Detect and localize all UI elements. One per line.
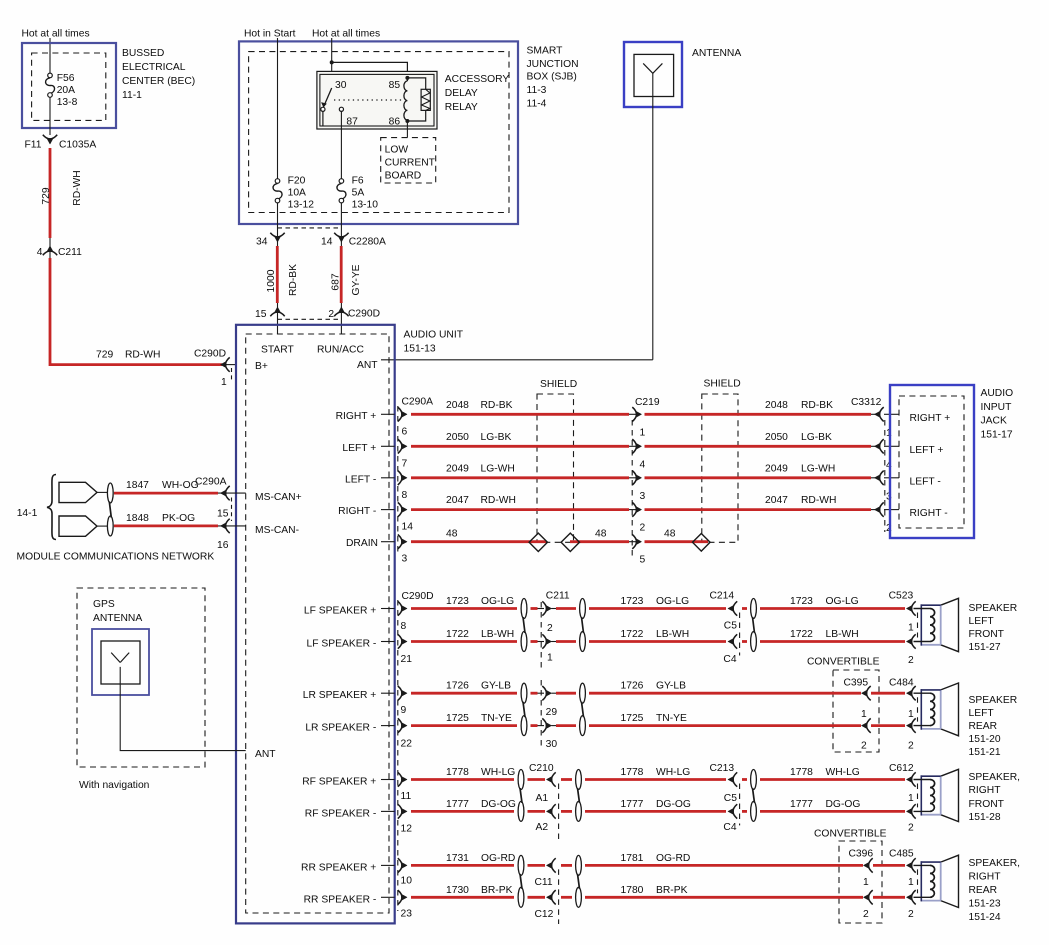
svg-text:LR SPEAKER +: LR SPEAKER + <box>303 690 377 701</box>
svg-text:2048: 2048 <box>446 400 469 411</box>
svg-text:C290A: C290A <box>402 396 434 407</box>
svg-text:30: 30 <box>335 80 347 91</box>
svg-text:15: 15 <box>255 309 267 320</box>
svg-text:LG-BK: LG-BK <box>481 432 512 443</box>
svg-text:1722: 1722 <box>790 629 813 640</box>
svg-text:2047: 2047 <box>446 495 469 506</box>
svg-text:151-23: 151-23 <box>969 899 1001 910</box>
svg-text:LEFT +: LEFT + <box>342 443 376 454</box>
svg-text:REAR: REAR <box>969 885 998 896</box>
svg-text:2: 2 <box>861 741 867 752</box>
svg-text:C211: C211 <box>58 247 82 258</box>
svg-text:C211: C211 <box>546 591 570 602</box>
svg-text:2: 2 <box>547 623 553 634</box>
svg-text:START: START <box>261 345 295 356</box>
svg-text:ANTENNA: ANTENNA <box>93 613 142 624</box>
svg-text:2: 2 <box>863 909 869 920</box>
svg-text:LOW: LOW <box>385 145 409 156</box>
svg-text:SPEAKER,: SPEAKER, <box>969 858 1021 869</box>
svg-text:1726: 1726 <box>621 681 644 692</box>
svg-text:TN-YE: TN-YE <box>481 713 512 724</box>
svg-text:WH-OG: WH-OG <box>162 480 199 491</box>
svg-text:151-24: 151-24 <box>969 912 1001 923</box>
svg-text:CONVERTIBLE: CONVERTIBLE <box>814 829 887 840</box>
svg-text:2: 2 <box>908 909 914 920</box>
svg-text:BR-PK: BR-PK <box>656 885 688 896</box>
svg-text:1848: 1848 <box>126 513 149 524</box>
svg-text:1: 1 <box>547 653 553 664</box>
svg-text:1: 1 <box>908 793 914 804</box>
svg-text:1722: 1722 <box>621 629 644 640</box>
svg-text:C523: C523 <box>889 591 914 602</box>
svg-text:JACK: JACK <box>981 416 1007 427</box>
svg-text:GPS: GPS <box>93 599 115 610</box>
svg-text:C290D: C290D <box>194 349 226 360</box>
svg-text:FRONT: FRONT <box>969 799 1005 810</box>
svg-text:F6: F6 <box>352 176 364 187</box>
svg-text:1777: 1777 <box>790 799 813 810</box>
svg-text:DRAIN: DRAIN <box>346 538 378 549</box>
svg-text:10: 10 <box>401 876 413 887</box>
svg-text:1: 1 <box>908 623 914 634</box>
svg-text:C5: C5 <box>724 621 737 632</box>
svg-text:1723: 1723 <box>446 596 469 607</box>
svg-text:LF SPEAKER +: LF SPEAKER + <box>304 606 376 617</box>
svg-text:7: 7 <box>402 458 408 469</box>
svg-text:C612: C612 <box>889 763 914 774</box>
svg-text:RUN/ACC: RUN/ACC <box>317 345 364 356</box>
svg-text:SPEAKER,: SPEAKER, <box>969 772 1021 783</box>
svg-text:DG-OG: DG-OG <box>656 799 691 810</box>
svg-text:MS-CAN-: MS-CAN- <box>255 525 299 536</box>
svg-text:1780: 1780 <box>621 885 644 896</box>
svg-text:151-21: 151-21 <box>969 747 1001 758</box>
svg-text:C5: C5 <box>724 793 737 804</box>
svg-text:2050: 2050 <box>765 432 788 443</box>
svg-text:JUNCTION: JUNCTION <box>527 59 579 70</box>
svg-text:RIGHT -: RIGHT - <box>338 506 376 517</box>
svg-text:PK-OG: PK-OG <box>162 513 195 524</box>
svg-text:729: 729 <box>41 187 52 204</box>
svg-text:Hot in Start: Hot in Start <box>244 29 296 40</box>
svg-text:DG-OG: DG-OG <box>481 799 516 810</box>
svg-text:C11: C11 <box>535 877 553 888</box>
svg-text:ANT: ANT <box>255 749 276 760</box>
svg-text:34: 34 <box>256 237 268 248</box>
svg-text:1730: 1730 <box>446 885 469 896</box>
svg-text:SHIELD: SHIELD <box>540 379 577 390</box>
svg-text:Hot at all times: Hot at all times <box>312 29 380 40</box>
svg-text:OG-LG: OG-LG <box>656 596 689 607</box>
svg-text:1726: 1726 <box>446 681 469 692</box>
svg-text:1: 1 <box>221 377 227 388</box>
svg-text:1778: 1778 <box>446 767 469 778</box>
svg-text:C219: C219 <box>635 397 660 408</box>
svg-text:LG-BK: LG-BK <box>801 432 832 443</box>
svg-text:2050: 2050 <box>446 432 469 443</box>
svg-text:LB-WH: LB-WH <box>481 629 514 640</box>
svg-text:1778: 1778 <box>790 767 813 778</box>
svg-text:DG-OG: DG-OG <box>826 799 861 810</box>
svg-text:8: 8 <box>402 490 408 501</box>
svg-text:RIGHT +: RIGHT + <box>910 413 951 424</box>
svg-text:ANT: ANT <box>357 360 378 371</box>
svg-text:4: 4 <box>640 459 646 470</box>
svg-text:B+: B+ <box>255 361 268 372</box>
svg-text:1: 1 <box>863 877 869 888</box>
svg-text:LR SPEAKER -: LR SPEAKER - <box>305 723 376 734</box>
svg-text:LEFT +: LEFT + <box>910 445 944 456</box>
svg-text:2049: 2049 <box>765 463 788 474</box>
svg-text:F20: F20 <box>288 176 306 187</box>
svg-text:WH-LG: WH-LG <box>656 767 690 778</box>
svg-text:87: 87 <box>346 117 358 128</box>
svg-text:LG-WH: LG-WH <box>481 463 515 474</box>
svg-text:RR SPEAKER -: RR SPEAKER - <box>304 894 377 905</box>
svg-text:LG-WH: LG-WH <box>801 463 835 474</box>
svg-text:LEFT -: LEFT - <box>345 474 376 485</box>
svg-text:RD-WH: RD-WH <box>125 350 160 361</box>
svg-text:OG-LG: OG-LG <box>481 596 514 607</box>
svg-text:C1035A: C1035A <box>59 140 96 151</box>
svg-text:OG-RD: OG-RD <box>481 853 515 864</box>
svg-text:C396: C396 <box>849 849 874 860</box>
svg-text:A2: A2 <box>536 822 549 833</box>
svg-text:5A: 5A <box>352 188 365 199</box>
svg-text:SHIELD: SHIELD <box>704 379 741 390</box>
svg-text:729: 729 <box>96 350 113 361</box>
svg-text:C485: C485 <box>889 849 914 860</box>
svg-text:OG-LG: OG-LG <box>826 596 859 607</box>
svg-text:86: 86 <box>389 117 401 128</box>
svg-text:BOARD: BOARD <box>385 171 422 182</box>
svg-text:RD-WH: RD-WH <box>481 495 516 506</box>
svg-text:2048: 2048 <box>765 400 788 411</box>
svg-text:CONVERTIBLE: CONVERTIBLE <box>807 657 880 668</box>
svg-text:20A: 20A <box>57 85 75 96</box>
svg-text:1000: 1000 <box>266 269 277 292</box>
svg-text:12: 12 <box>401 823 413 834</box>
svg-text:151-27: 151-27 <box>969 642 1001 653</box>
svg-text:13-12: 13-12 <box>288 200 315 211</box>
svg-text:1: 1 <box>861 709 867 720</box>
svg-text:RD-WH: RD-WH <box>801 495 836 506</box>
svg-text:2: 2 <box>908 741 914 752</box>
svg-text:SMART: SMART <box>527 46 564 57</box>
svg-text:1847: 1847 <box>126 480 149 491</box>
svg-text:With navigation: With navigation <box>79 780 150 791</box>
svg-text:MS-CAN+: MS-CAN+ <box>255 492 302 503</box>
svg-text:AUDIO: AUDIO <box>981 388 1014 399</box>
svg-text:1725: 1725 <box>621 713 644 724</box>
svg-text:C290D: C290D <box>402 591 434 602</box>
svg-text:16: 16 <box>217 540 229 551</box>
svg-text:C395: C395 <box>844 678 869 689</box>
svg-text:1: 1 <box>908 877 914 888</box>
svg-text:5: 5 <box>640 555 646 566</box>
svg-text:1: 1 <box>640 427 646 438</box>
svg-text:151-20: 151-20 <box>969 734 1001 745</box>
svg-text:RR SPEAKER +: RR SPEAKER + <box>301 862 376 873</box>
svg-text:A1: A1 <box>536 793 549 804</box>
svg-text:13-10: 13-10 <box>352 200 379 211</box>
svg-text:ANTENNA: ANTENNA <box>692 48 741 59</box>
svg-text:C210: C210 <box>529 763 554 774</box>
svg-text:1722: 1722 <box>446 629 469 640</box>
svg-text:GY-YE: GY-YE <box>351 264 362 295</box>
svg-text:C484: C484 <box>889 678 914 689</box>
svg-text:RD-BK: RD-BK <box>801 400 833 411</box>
svg-text:48: 48 <box>595 529 607 540</box>
svg-text:GY-LB: GY-LB <box>481 681 511 692</box>
svg-text:1777: 1777 <box>621 799 644 810</box>
svg-text:14-1: 14-1 <box>17 508 38 519</box>
svg-text:RD-BK: RD-BK <box>481 400 513 411</box>
svg-text:8: 8 <box>401 621 407 632</box>
svg-text:C12: C12 <box>535 909 554 920</box>
svg-text:BOX (SJB): BOX (SJB) <box>527 72 577 83</box>
svg-text:C4: C4 <box>723 654 736 665</box>
svg-text:687: 687 <box>330 273 341 290</box>
svg-text:4: 4 <box>37 247 43 258</box>
svg-text:INPUT: INPUT <box>981 402 1013 413</box>
svg-text:AUDIO UNIT: AUDIO UNIT <box>404 330 464 341</box>
svg-text:9: 9 <box>401 705 407 716</box>
svg-text:2047: 2047 <box>765 495 788 506</box>
svg-text:2: 2 <box>908 823 914 834</box>
svg-text:1731: 1731 <box>446 853 469 864</box>
svg-text:ACCESSORY: ACCESSORY <box>445 74 510 85</box>
svg-text:1725: 1725 <box>446 713 469 724</box>
svg-text:11-3: 11-3 <box>527 85 547 96</box>
svg-text:15: 15 <box>217 509 229 520</box>
svg-text:LF SPEAKER -: LF SPEAKER - <box>306 639 376 650</box>
svg-text:LB-WH: LB-WH <box>656 629 689 640</box>
svg-text:1781: 1781 <box>621 853 644 864</box>
svg-text:LB-WH: LB-WH <box>826 629 859 640</box>
svg-text:RIGHT +: RIGHT + <box>336 411 377 422</box>
svg-text:14: 14 <box>321 237 333 248</box>
svg-text:DELAY: DELAY <box>445 88 478 99</box>
svg-text:MODULE COMMUNICATIONS NETWORK: MODULE COMMUNICATIONS NETWORK <box>17 552 215 563</box>
svg-text:F56: F56 <box>57 73 75 84</box>
svg-text:85: 85 <box>389 80 401 91</box>
svg-text:6: 6 <box>402 426 408 437</box>
svg-text:1723: 1723 <box>790 596 813 607</box>
svg-text:LEFT: LEFT <box>969 616 995 627</box>
svg-text:3: 3 <box>640 491 646 502</box>
svg-text:Hot at all times: Hot at all times <box>22 29 90 40</box>
svg-text:LEFT: LEFT <box>969 708 995 719</box>
svg-text:GY-LB: GY-LB <box>656 681 686 692</box>
svg-text:30: 30 <box>546 739 558 750</box>
svg-text:REAR: REAR <box>969 721 998 732</box>
svg-text:151-28: 151-28 <box>969 812 1001 823</box>
svg-text:WH-LG: WH-LG <box>826 767 860 778</box>
svg-text:OG-RD: OG-RD <box>656 853 690 864</box>
svg-text:ELECTRICAL: ELECTRICAL <box>122 62 186 73</box>
svg-text:F11: F11 <box>25 140 42 151</box>
svg-text:2: 2 <box>640 523 646 534</box>
svg-text:2: 2 <box>328 309 334 320</box>
svg-text:C290A: C290A <box>195 477 227 488</box>
svg-text:CURRENT: CURRENT <box>385 158 436 169</box>
svg-text:14: 14 <box>402 522 414 533</box>
svg-text:22: 22 <box>401 739 413 750</box>
svg-text:21: 21 <box>401 654 413 665</box>
svg-text:151-13: 151-13 <box>404 344 436 355</box>
svg-text:RF SPEAKER +: RF SPEAKER + <box>302 777 376 788</box>
svg-text:SPEAKER: SPEAKER <box>969 603 1018 614</box>
svg-text:C213: C213 <box>710 763 735 774</box>
svg-text:151-17: 151-17 <box>981 430 1013 441</box>
svg-text:BR-PK: BR-PK <box>481 885 513 896</box>
svg-text:RIGHT: RIGHT <box>969 872 1002 883</box>
svg-text:29: 29 <box>546 707 558 718</box>
svg-text:2049: 2049 <box>446 463 469 474</box>
svg-text:1778: 1778 <box>621 767 644 778</box>
svg-text:C214: C214 <box>710 591 735 602</box>
svg-text:C3312: C3312 <box>851 397 882 408</box>
svg-text:RD-BK: RD-BK <box>288 264 299 296</box>
svg-text:C4: C4 <box>723 822 736 833</box>
svg-text:BUSSED: BUSSED <box>122 48 164 59</box>
svg-text:11-1: 11-1 <box>122 90 142 101</box>
svg-text:48: 48 <box>446 529 458 540</box>
svg-text:1: 1 <box>908 709 914 720</box>
svg-text:1723: 1723 <box>621 596 644 607</box>
svg-text:SPEAKER: SPEAKER <box>969 695 1018 706</box>
svg-text:10A: 10A <box>288 188 306 199</box>
svg-text:RIGHT -: RIGHT - <box>910 508 948 519</box>
svg-text:TN-YE: TN-YE <box>656 713 687 724</box>
svg-text:11-4: 11-4 <box>527 99 547 110</box>
svg-text:23: 23 <box>401 908 413 919</box>
svg-text:CENTER (BEC): CENTER (BEC) <box>122 76 195 87</box>
svg-text:11: 11 <box>401 791 412 802</box>
svg-text:WH-LG: WH-LG <box>481 767 515 778</box>
svg-text:48: 48 <box>664 529 676 540</box>
svg-text:RIGHT: RIGHT <box>969 785 1002 796</box>
svg-text:2: 2 <box>908 655 914 666</box>
svg-text:C290D: C290D <box>348 309 380 320</box>
svg-text:RELAY: RELAY <box>445 102 478 113</box>
svg-text:13-8: 13-8 <box>57 97 78 108</box>
svg-text:FRONT: FRONT <box>969 629 1005 640</box>
svg-text:RD-WH: RD-WH <box>72 170 83 205</box>
svg-text:RF SPEAKER -: RF SPEAKER - <box>305 808 377 819</box>
svg-text:C2280A: C2280A <box>349 237 386 248</box>
svg-text:3: 3 <box>402 554 408 565</box>
svg-text:LEFT -: LEFT - <box>910 476 941 487</box>
svg-text:1777: 1777 <box>446 799 469 810</box>
